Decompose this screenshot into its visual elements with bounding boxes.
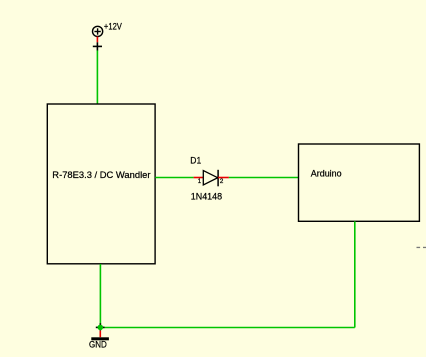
GND symbol pin (red) bbox=[99, 331, 101, 338]
pin of +12V supply (red) bbox=[96, 37, 98, 43]
regulator U1 box bbox=[47, 104, 155, 264]
svg-text:1N4148: 1N4148 bbox=[191, 191, 222, 202]
D1 cathode pin (red) bbox=[218, 177, 229, 179]
svg-text:GND: GND bbox=[89, 340, 107, 350]
pin cross of GND symbol bbox=[96, 323, 105, 330]
wire bottom horizontal to GND junction bbox=[100, 327, 354, 329]
module Arduino box bbox=[299, 144, 420, 221]
wire U1 output to D1 bbox=[155, 177, 193, 179]
diode D1 triangle bbox=[203, 171, 217, 185]
dashed frame fragment bbox=[417, 247, 426, 248]
svg-text:D1: D1 bbox=[190, 155, 201, 166]
wire U1 GND down bbox=[99, 264, 101, 328]
wire Arduino GND down bbox=[354, 221, 356, 327]
D1 anode pin (red) bbox=[194, 177, 204, 179]
wire D1 to Arduino bbox=[229, 177, 299, 179]
svg-text:+12V: +12V bbox=[104, 21, 122, 31]
ground symbol bar bbox=[91, 337, 109, 340]
svg-text:2: 2 bbox=[220, 178, 224, 185]
power symbol +12V bbox=[93, 26, 103, 36]
svg-text:1: 1 bbox=[198, 178, 202, 185]
junction at GND node bbox=[98, 325, 104, 331]
svg-text:R-78E3.3 / DC Wandler: R-78E3.3 / DC Wandler bbox=[52, 170, 150, 181]
wire +12V to regulator bbox=[96, 50, 98, 104]
diode D1 cathode bar bbox=[217, 170, 219, 187]
pin cross of +12V supply bbox=[93, 42, 102, 50]
svg-text:Arduino: Arduino bbox=[311, 168, 342, 179]
